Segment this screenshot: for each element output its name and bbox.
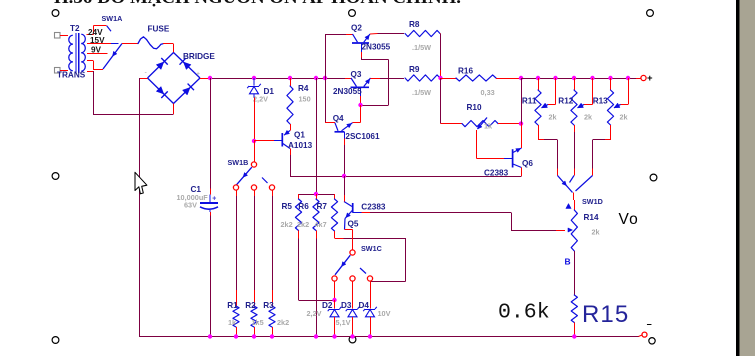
label SW1A: [102, 14, 123, 23]
node R2 ground junction: [252, 334, 256, 338]
wire rail to divider rail: [316, 78, 318, 194]
label R11: [522, 97, 537, 106]
svg-text:2k: 2k: [620, 112, 629, 121]
wire rail to D1: [253, 78, 255, 86]
svg-text:R8: R8: [409, 20, 420, 29]
wire SW1B throw to R1: [236, 191, 238, 307]
label SW1D: [582, 197, 603, 206]
label SW1C: [361, 244, 382, 253]
svg-text:R4: R4: [298, 84, 309, 93]
svg-text:R10: R10: [467, 103, 482, 112]
svg-text:H.36 ĐO MẠCH NGUỒN ỔN ÁP HOÀN: H.36 ĐO MẠCH NGUỒN ỔN ÁP HOÀN CHỈNH.: [54, 0, 461, 7]
svg-text:2k: 2k: [549, 112, 558, 121]
wire Q1 base: [254, 140, 274, 142]
wire R12 bottom to SW1D: [574, 125, 576, 176]
svg-text:5,1V: 5,1V: [336, 318, 351, 327]
value R3: [277, 318, 289, 327]
label Q2 type: [362, 43, 391, 52]
wire R15 to rail: [574, 323, 576, 337]
svg-text:+: +: [196, 71, 200, 78]
wire D1 to node: [253, 94, 256, 141]
label R6: [298, 202, 309, 211]
wire Q3 base to node: [360, 96, 362, 105]
svg-text:15V: 15V: [90, 36, 105, 45]
mouse cursor: [135, 172, 147, 194]
wire 15V tap: [87, 43, 111, 45]
svg-text:D3: D3: [341, 301, 352, 310]
svg-text:A1013: A1013: [288, 141, 313, 150]
label R5: [282, 202, 293, 211]
switch SW1A arm: [103, 44, 122, 70]
switch SW1C throw 1: [332, 276, 337, 281]
resistor R16: [456, 75, 496, 81]
node R6 ground junction: [314, 334, 318, 338]
wire R11 bottom to SW1D: [538, 125, 558, 176]
svg-text:R9: R9: [409, 65, 420, 74]
wire main DC rail: [210, 78, 351, 80]
wire Q4 collector: [325, 122, 335, 124]
label R1: [227, 301, 238, 310]
value C1 10000uF: [177, 193, 209, 202]
zener diode D1: [247, 84, 261, 94]
svg-text:C2383: C2383: [361, 202, 386, 211]
wire secondary common tap: [87, 61, 103, 70]
node D2 ground junction: [332, 334, 336, 338]
wire secondary bottom to AC return: [87, 71, 174, 115]
wire Q2 base detour: [361, 52, 389, 106]
resistor R10: [462, 121, 498, 127]
svg-text:Q1: Q1: [294, 131, 305, 140]
zener diode D3: [346, 307, 360, 317]
wire rail corner to R7: [334, 194, 336, 199]
label D3: [341, 301, 352, 310]
transistor Q6: [504, 148, 522, 168]
wire bottom negative rail: [139, 336, 639, 338]
node R10 output junction: [519, 121, 523, 125]
node R4 junction: [288, 76, 292, 80]
resistor R9: [405, 75, 440, 81]
wire R10 wiper to Q6 base: [477, 130, 504, 159]
svg-text:Q5: Q5: [348, 220, 359, 229]
svg-text:2k2: 2k2: [277, 318, 289, 327]
resistor R2: [251, 306, 257, 327]
wire Q4 emitter up: [353, 105, 361, 123]
label Q2: [351, 24, 362, 33]
resistor R4: [287, 86, 293, 124]
value C1 63V: [184, 201, 197, 210]
value R14: [592, 228, 601, 237]
node divider rail junction: [314, 192, 318, 196]
wire Q1 collector down: [290, 149, 292, 177]
selection handle mid-left: [52, 173, 59, 180]
value R16: [481, 88, 495, 97]
svg-text:10V: 10V: [378, 309, 391, 318]
svg-text:9V: 9V: [91, 46, 102, 55]
wire R7 bottom to SW1C right: [335, 231, 406, 282]
wire Q6 emitter up: [521, 124, 523, 148]
node D4 ground junction: [368, 334, 372, 338]
svg-text:1k5: 1k5: [252, 318, 264, 327]
wire R13 bottom to SW1D: [593, 125, 611, 176]
label SW1B: [228, 158, 249, 167]
potentiometer R11: [535, 78, 556, 125]
label Q4: [333, 114, 344, 123]
label R15 big: [582, 301, 629, 328]
value R2: [252, 318, 264, 327]
label Q6 type: [484, 168, 509, 177]
resistor R3: [269, 306, 275, 327]
node D2 anode junction: [332, 298, 336, 302]
value R4: [299, 95, 311, 104]
node R16 output junction: [519, 76, 523, 80]
node D1-Q1 base junction: [252, 139, 256, 143]
wire SW1B throw to R2: [254, 191, 256, 307]
svg-text:SW1C: SW1C: [361, 244, 382, 253]
switch SW1B common: [251, 162, 256, 167]
label R9: [409, 65, 420, 74]
wire D4 to rail: [370, 317, 372, 337]
svg-text:R7: R7: [317, 202, 328, 211]
switch SW1B throw 1: [233, 185, 238, 190]
resistor R15: [571, 295, 577, 323]
value R1: [228, 318, 237, 327]
transistor Q4: [335, 123, 353, 139]
wire SW1C throw3 to D4: [370, 282, 372, 309]
wire SW1A to fuse: [122, 43, 138, 45]
label Q5: [348, 220, 359, 229]
svg-text:0.6k: 0.6k: [498, 301, 550, 325]
wire R3 to rail: [272, 327, 274, 337]
value R11: [549, 112, 558, 121]
wire Q5 emitter to SW1C: [345, 219, 353, 250]
node Q2-Q3-Q4 base junction: [358, 103, 362, 107]
output port minus: [642, 332, 647, 337]
wire rail to R4: [290, 78, 292, 86]
svg-text:R5: R5: [282, 202, 293, 211]
label minus: [647, 320, 652, 330]
label Q6: [522, 159, 533, 168]
svg-text:4k7: 4k7: [315, 220, 327, 229]
label D2: [322, 301, 333, 310]
transistor Q5: [344, 202, 362, 219]
switch SW1B throw 2: [251, 185, 256, 190]
zener diode D2: [328, 307, 342, 317]
node R9 output junction: [438, 76, 442, 80]
svg-text:2,2V: 2,2V: [307, 309, 322, 318]
wire SW1B throw to R3: [272, 191, 274, 307]
wire fuse to bridge top: [163, 44, 174, 53]
wire rail to minus port: [639, 335, 643, 337]
label 9V: [91, 46, 102, 55]
label 24V: [88, 28, 103, 37]
label R7: [317, 202, 328, 211]
resistor R7: [331, 199, 337, 231]
selection handle bottom-left: [52, 337, 59, 344]
node R3 ground junction: [270, 334, 274, 338]
label R12: [558, 97, 573, 106]
svg-text:2N3055: 2N3055: [333, 87, 362, 96]
svg-text:63V: 63V: [184, 201, 197, 210]
node R11 wiper junction: [553, 76, 557, 80]
svg-text:R6: R6: [298, 202, 309, 211]
wire bridge minus to left bus: [139, 78, 148, 80]
value R12: [584, 112, 593, 121]
wire to D2: [334, 300, 336, 309]
value D3: [336, 318, 351, 327]
workspace gray area right of page: [740, 0, 755, 356]
svg-text:2k2: 2k2: [281, 220, 293, 229]
wire R9 junction down to R10: [441, 78, 463, 124]
label Q1: [294, 131, 305, 140]
wire junction to R16: [441, 78, 457, 80]
label R2: [245, 301, 256, 310]
output port plus: [641, 75, 646, 80]
node C1 ground junction: [208, 334, 212, 338]
value R8: [412, 43, 431, 52]
label 15V: [90, 36, 105, 45]
label R10: [467, 103, 482, 112]
svg-text:2,2V: 2,2V: [253, 95, 268, 104]
wire node to SW1B: [254, 141, 256, 162]
wire SW1C throw1 to D2: [334, 282, 336, 301]
selection handle bottom-right: [649, 338, 655, 344]
label Q3 type: [333, 87, 362, 96]
wire Q5 base feedback: [362, 212, 566, 230]
wire R16 node down: [521, 78, 523, 124]
svg-text:D2: D2: [322, 301, 333, 310]
switch SW1C contact tick: [360, 268, 366, 274]
svg-text:0,33: 0,33: [481, 88, 495, 97]
wire D3 to rail: [352, 317, 354, 337]
svg-text:1k: 1k: [228, 318, 237, 327]
svg-text:2k: 2k: [592, 228, 601, 237]
label Q1 type: [288, 141, 313, 150]
label Q4 type: [345, 132, 380, 141]
svg-text:T2: T2: [70, 24, 80, 33]
node D3 ground junction: [350, 334, 354, 338]
svg-text:FUSE: FUSE: [148, 25, 170, 34]
label R4: [298, 84, 309, 93]
svg-text:D4: D4: [359, 301, 370, 310]
node Q4 base junction: [342, 174, 346, 178]
wire R10 to output node: [498, 123, 521, 125]
wire R2 to rail: [254, 327, 256, 337]
wire output rail: [521, 78, 636, 80]
svg-text:+: +: [212, 196, 216, 203]
wire 24V tap: [86, 26, 106, 35]
switch SW1B arm: [237, 167, 252, 185]
wire Q6 collector down: [521, 168, 523, 177]
wire R4 to Q1 emitter: [290, 124, 292, 131]
label R14: [584, 213, 599, 222]
svg-text:Q3: Q3: [351, 70, 362, 79]
wire R5 bottom to D2 node: [299, 231, 335, 301]
open contact stub 24V: [107, 26, 111, 32]
label B: [565, 257, 571, 267]
potentiometer R10 wiper arrow: [478, 118, 488, 130]
wire collector bus: [325, 34, 353, 123]
wire 9V tap: [87, 53, 108, 55]
svg-text:Vo: Vo: [619, 211, 640, 228]
node R13 top junction: [608, 76, 612, 80]
switch SW1B contact tick: [262, 178, 268, 184]
value D4: [378, 309, 391, 318]
switch SW1D: [558, 176, 593, 193]
label 0.6k: [498, 301, 550, 325]
capacitor C1: [200, 78, 218, 337]
svg-text:B: B: [565, 257, 571, 267]
wire R16 to output rail: [496, 78, 521, 80]
wire error node line: [290, 176, 522, 178]
fuse FUSE: [138, 37, 163, 49]
zener diode D4: [363, 307, 377, 317]
value R10: [484, 122, 493, 131]
wire divider rail: [299, 194, 335, 196]
node R15 ground junction: [572, 334, 576, 338]
svg-text:SW1B: SW1B: [228, 158, 249, 167]
svg-text:R2: R2: [245, 301, 256, 310]
svg-text:TRANS: TRANS: [57, 71, 86, 80]
wire bridge plus stub: [200, 78, 210, 80]
node bridge output junction: [208, 76, 212, 80]
label Q5 type: [361, 202, 386, 211]
wire R8 to R9 junction: [439, 34, 442, 79]
svg-text:Q6: Q6: [522, 159, 533, 168]
wire SW1C throw2 to D3: [352, 282, 354, 309]
label C1: [191, 185, 202, 194]
value D1: [253, 95, 268, 104]
node D1 junction: [252, 76, 256, 80]
value R5: [281, 220, 293, 229]
potentiometer R14 arrow: [566, 204, 571, 209]
svg-text:R13: R13: [593, 97, 608, 106]
resistor R1: [233, 306, 239, 327]
wire to plus port: [636, 78, 641, 80]
svg-text:−: −: [647, 320, 652, 330]
switch SW1C arm: [335, 255, 350, 275]
selection handle mid-right: [650, 174, 657, 181]
transformer T2 (TRANS): [55, 24, 86, 80]
label FUSE: [148, 25, 170, 34]
svg-text:R11: R11: [522, 97, 537, 106]
node R1 ground junction: [234, 334, 238, 338]
svg-text:R12: R12: [558, 97, 573, 106]
transistor Q3: [351, 78, 371, 96]
resistor R5: [295, 194, 301, 231]
switch SW1B throw 3: [269, 185, 274, 190]
node R12 wiper junction: [590, 76, 594, 80]
resistor R14: [571, 210, 577, 251]
resistor R8: [405, 30, 440, 36]
potentiometer R12: [571, 78, 593, 125]
wire bridge bottom stub: [173, 104, 175, 115]
selection handle top-right: [647, 10, 654, 17]
svg-text:R1: R1: [227, 301, 238, 310]
value R7: [315, 220, 327, 229]
wire Q4 base down: [344, 139, 346, 177]
svg-text:+: +: [647, 73, 653, 84]
switch SW1C throw 2: [350, 276, 355, 281]
wire left negative bus: [139, 78, 141, 337]
svg-text:2k: 2k: [584, 112, 593, 121]
value R6: [297, 220, 309, 229]
label R8: [409, 20, 420, 29]
value R9: [412, 88, 431, 97]
node divider feed junction: [314, 76, 318, 80]
transistor Q2: [352, 34, 370, 52]
label D1: [264, 87, 275, 96]
svg-text:.1/5W: .1/5W: [412, 43, 431, 52]
wire SW1D to R14: [574, 193, 575, 211]
svg-text:SW1D: SW1D: [582, 197, 603, 206]
selection handle top-center: [349, 10, 356, 17]
open contact stub 15V: [111, 43, 119, 45]
resistor R6: [313, 194, 319, 231]
svg-text:BRIDGE: BRIDGE: [183, 52, 215, 61]
label R3: [263, 301, 274, 310]
selection handle bottom-center: [349, 336, 356, 343]
potentiometer R13: [607, 78, 628, 125]
node R13 wiper junction: [626, 76, 630, 80]
svg-text:Q2: Q2: [351, 24, 362, 33]
bridge rectifier BRIDGE: [145, 53, 201, 104]
svg-text:2N3055: 2N3055: [362, 43, 391, 52]
wire R1 to rail: [236, 327, 238, 337]
svg-text:R3: R3: [263, 301, 274, 310]
svg-text:C2383: C2383: [484, 168, 509, 177]
label plus: [647, 73, 653, 84]
label BRIDGE: [183, 52, 215, 61]
label Vo: [619, 211, 640, 228]
svg-text:1k: 1k: [484, 122, 493, 131]
document page right edge border: [736, 0, 740, 356]
label Q3: [351, 70, 362, 79]
svg-text:R15: R15: [582, 301, 629, 328]
wire D2 to rail: [334, 317, 336, 337]
node R12 top junction: [572, 76, 576, 80]
value R13: [620, 112, 629, 121]
node R11 top junction: [536, 76, 540, 80]
wire Q5 collector: [344, 176, 346, 202]
label R13: [593, 97, 608, 106]
value D2: [307, 309, 322, 318]
svg-text:R16: R16: [458, 67, 473, 76]
selection handle top-left: [52, 10, 59, 17]
svg-text:150: 150: [299, 95, 311, 104]
transistor Q1: [274, 130, 290, 148]
svg-text:Q4: Q4: [333, 114, 344, 123]
cropped document title text: [54, 0, 461, 7]
svg-text:R14: R14: [584, 213, 599, 222]
svg-text:2k2: 2k2: [297, 220, 309, 229]
switch SW1C common: [350, 250, 355, 255]
wire R6 bottom to ground rail: [316, 231, 318, 337]
label D4: [359, 301, 370, 310]
node collector bus junction: [323, 76, 327, 80]
wire R14 to R15: [574, 251, 576, 295]
switch SW1C throw 3: [367, 276, 372, 281]
svg-text:SW1A: SW1A: [102, 14, 123, 23]
potentiometer R14 wiper arrow: [568, 228, 573, 232]
wire Q3 emitter to R9: [371, 78, 405, 80]
svg-text:.1/5W: .1/5W: [412, 88, 431, 97]
svg-text:2SC1061: 2SC1061: [345, 132, 380, 141]
label R16: [458, 67, 473, 76]
wire Q2 emitter to R8: [370, 33, 404, 36]
